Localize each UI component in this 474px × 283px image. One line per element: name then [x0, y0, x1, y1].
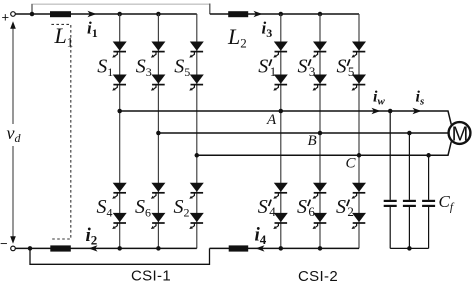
svg-text:i4: i4 [255, 225, 267, 248]
node leg1 bottom [117, 246, 122, 251]
svg-text:iw: iw [373, 89, 385, 108]
switch S6' [313, 183, 328, 199]
svg-text:S4: S4 [97, 196, 113, 220]
capacitor leg 2 wire lower [408, 207, 410, 249]
switch S1 (two GTOs) [112, 42, 127, 58]
svg-text:S: S [258, 196, 268, 218]
svg-text:S: S [336, 196, 346, 218]
capacitor leg 3 wire lower [428, 207, 430, 249]
svg-text:3: 3 [309, 64, 316, 79]
wire: bypass rail drop to CSI-2 [209, 4, 211, 15]
switch S4' [273, 183, 288, 199]
svg-text:+: + [2, 10, 10, 25]
terminal circle bottom-left [11, 246, 16, 251]
svg-text:B: B [308, 133, 317, 149]
node phase C leg3' [357, 153, 362, 158]
wire: CSI-1 bottom rail [15, 247, 197, 249]
is arrowhead [413, 108, 422, 114]
svg-text:CSI-2: CSI-2 [298, 268, 338, 283]
wire: CSI-1 leg 1 [119, 14, 121, 248]
svg-text:S: S [297, 196, 307, 218]
node cap tap A [388, 109, 393, 114]
wire: CSI-2 bottom rail [210, 247, 360, 249]
svg-text:4: 4 [269, 204, 276, 219]
svg-text:5: 5 [348, 64, 355, 79]
switch S2' [352, 183, 367, 199]
i1 arrowhead [88, 11, 97, 17]
wire: CSI-1 top rail [15, 13, 197, 15]
switch S1' [273, 42, 288, 58]
svg-text:M: M [452, 123, 469, 145]
svg-text:S2: S2 [174, 196, 190, 220]
capacitor C plates leg2 [403, 200, 416, 202]
wire: bypass rail riser from + terminal node [31, 4, 33, 14]
i4 arrowhead [256, 245, 265, 251]
node at bypass junction top-left [30, 12, 35, 17]
svg-text:i3: i3 [262, 19, 273, 41]
inductor L (CSI-2 bottom) [229, 245, 249, 251]
inductor L1 (bottom winding) [50, 245, 71, 251]
switch S3' [313, 42, 328, 58]
wire: CSI-1 leg 3 [196, 14, 198, 248]
node phase B leg2' [318, 131, 323, 136]
terminal circle top-left [11, 12, 16, 17]
switch S3 [151, 42, 166, 58]
wire: CSI-2 leg 3 [358, 14, 360, 248]
svg-text:2: 2 [347, 204, 354, 219]
vd voltage arrow line [12, 25, 14, 124]
vd top arrowhead [10, 21, 16, 29]
i3 arrowhead [254, 11, 263, 17]
switch S6 [151, 183, 166, 199]
node leg1 top [117, 12, 122, 17]
i2 arrowhead [89, 245, 98, 251]
node leg2' top [318, 12, 323, 17]
vd bottom arrowhead [10, 236, 16, 244]
svg-text:L2: L2 [227, 24, 247, 51]
inductor L1 (top winding) [50, 11, 71, 17]
svg-text:1: 1 [270, 64, 277, 79]
capacitor C plates leg3 [422, 200, 435, 202]
capacitor star bottom wire [390, 247, 428, 249]
capacitor leg 2 wire upper [408, 133, 410, 200]
switch S5' [352, 42, 367, 58]
vd voltage arrow line lower segment [12, 146, 14, 240]
svg-text:is: is [416, 89, 425, 108]
capacitor C plates leg1 [384, 200, 397, 202]
wire: CSI-1 leg 2 [157, 14, 159, 248]
svg-text:CSI-1: CSI-1 [131, 268, 171, 283]
switch S4 [112, 183, 127, 199]
capacitor leg 1 wire upper [389, 111, 391, 200]
node leg1' bottom [279, 246, 284, 251]
wire: phase C line [197, 142, 451, 156]
svg-text:−: − [0, 236, 8, 251]
svg-text:A: A [266, 112, 277, 128]
svg-text:Cf: Cf [439, 192, 455, 214]
wire: phase B line [158, 132, 447, 134]
capacitor leg 3 wire upper [428, 155, 430, 200]
dashed coupling box of L1 [51, 24, 71, 239]
svg-text:S: S [258, 56, 268, 78]
wire: phase A line [120, 111, 452, 125]
svg-text:S: S [298, 56, 308, 78]
svg-text:S1: S1 [97, 56, 113, 80]
node cap tap C [426, 153, 431, 158]
lower bus wire to CSI-2 [30, 248, 210, 264]
node bottom-left junction [28, 246, 33, 251]
svg-text:i1: i1 [87, 19, 98, 41]
svg-text:C: C [346, 156, 357, 172]
node phase B leg2 [156, 131, 161, 136]
node leg2' bottom [318, 246, 323, 251]
svg-text:vd: vd [7, 123, 22, 145]
node leg1' top [279, 12, 284, 17]
svg-text:S6: S6 [135, 196, 151, 220]
capacitor leg 1 wire lower [389, 207, 391, 249]
node leg2 top [156, 12, 161, 17]
svg-text:6: 6 [308, 204, 315, 219]
motor M [449, 122, 471, 144]
iw arrowhead [372, 108, 381, 114]
node leg2 bottom [156, 246, 161, 251]
wire: CSI-2 top rail [210, 13, 359, 15]
svg-text:S5: S5 [174, 56, 190, 80]
svg-text:S: S [337, 56, 347, 78]
switch S2 [189, 183, 204, 199]
svg-text:S3: S3 [136, 56, 152, 80]
svg-text:i2: i2 [86, 225, 98, 248]
wire: CSI-2 leg 1 [280, 14, 282, 248]
switch S5 [189, 42, 204, 58]
inductor L2 [228, 11, 248, 17]
node phase A leg1 [117, 109, 122, 114]
node phase C leg3 [195, 153, 200, 158]
node phase A leg1' [279, 109, 284, 114]
wire: CSI-2 leg 2 [319, 14, 321, 248]
node star point [407, 246, 412, 251]
node cap tap B [407, 131, 412, 136]
top bypass rail [32, 4, 210, 14]
